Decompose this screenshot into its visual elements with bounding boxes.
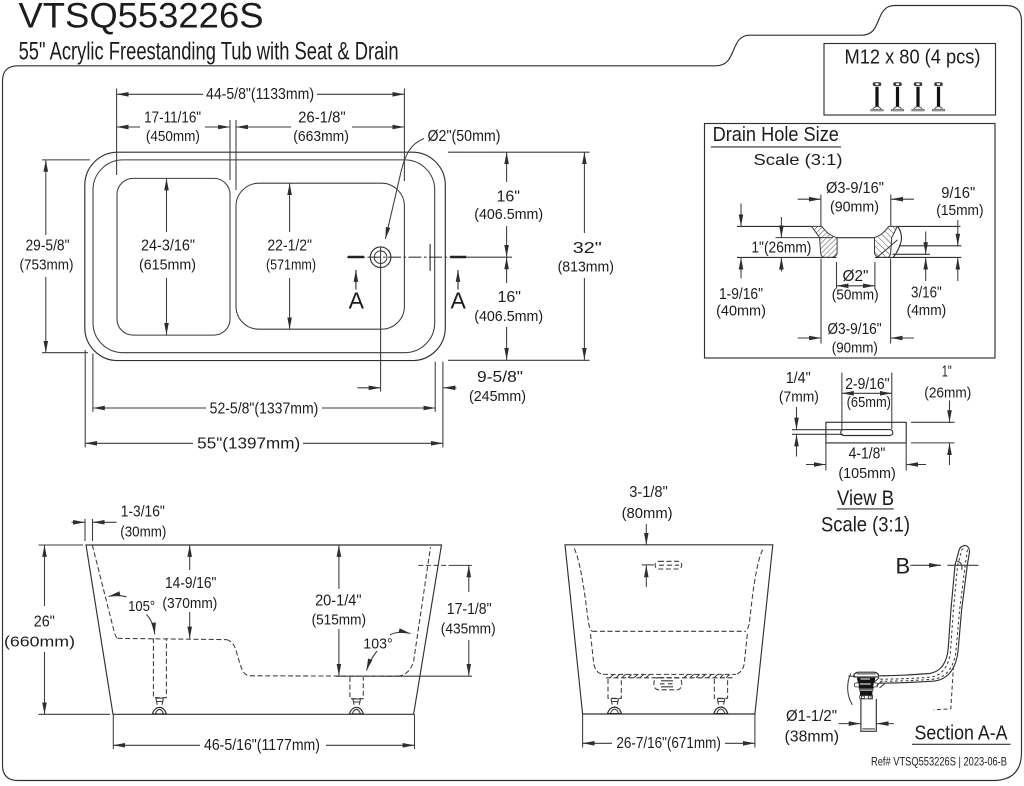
svg-text:(7mm): (7mm)	[779, 389, 819, 406]
end view inner wall right dashed	[746, 550, 763, 632]
svg-text:(450mm): (450mm)	[146, 128, 200, 145]
svg-text:105°: 105°	[128, 598, 155, 615]
svg-text:16": 16"	[497, 289, 521, 306]
svg-text:Ø3-9/16": Ø3-9/16"	[826, 180, 884, 197]
drain cable curve	[848, 674, 856, 705]
dim 46-5/16 base	[113, 714, 414, 754]
label diameter 2in drain	[385, 128, 500, 239]
drain hole plan	[370, 247, 391, 268]
svg-text:29-5/8": 29-5/8"	[26, 237, 70, 254]
svg-text:(571mm): (571mm)	[266, 257, 316, 274]
dim 4-1/8 plate length	[806, 443, 926, 482]
section wall inner line and floor top	[880, 545, 966, 675]
svg-text:9-5/8": 9-5/8"	[477, 369, 523, 386]
dim 32 overall width	[558, 152, 614, 360]
bolt 2	[891, 82, 904, 111]
svg-text:A: A	[349, 287, 365, 313]
svg-text:2-9/16": 2-9/16"	[845, 376, 889, 393]
dim bottom diameter 3-9/16	[798, 259, 914, 357]
tub plan outer rim	[85, 152, 446, 360]
svg-text:(615mm): (615mm)	[139, 257, 196, 274]
svg-text:(4mm): (4mm)	[907, 302, 947, 319]
dim top diameter 3-9/16	[798, 180, 914, 226]
tub plan seat basin	[117, 178, 230, 335]
end view floor band dashed	[603, 674, 736, 677]
dim 44-5/8 top	[117, 86, 405, 181]
deck surface lines	[737, 225, 961, 227]
bolt 4	[932, 82, 945, 111]
dim 14-9/16 seat depth	[162, 545, 217, 639]
svg-text:46-5/16"(1177mm): 46-5/16"(1177mm)	[204, 737, 320, 754]
dim tailpipe diameter	[785, 708, 894, 746]
svg-text:Section A-A: Section A-A	[915, 721, 1008, 744]
dim 3-1/8 overflow	[622, 484, 673, 587]
dim 52-5/8	[93, 354, 435, 418]
svg-text:4-1/8": 4-1/8"	[849, 446, 886, 463]
overflow tick plan	[429, 244, 431, 271]
angle 105 label	[109, 596, 156, 635]
view B title	[837, 487, 894, 510]
svg-text:3/16": 3/16"	[911, 285, 942, 302]
svg-text:(65mm): (65mm)	[847, 394, 891, 411]
drain detail box	[705, 124, 996, 359]
svg-text:(26mm): (26mm)	[924, 384, 971, 401]
drain locknut black	[854, 678, 878, 689]
svg-text:17-1/8": 17-1/8"	[447, 601, 492, 618]
svg-text:24-3/16": 24-3/16"	[141, 238, 195, 255]
dim 1/4 slot width	[779, 370, 843, 456]
drain box title	[711, 124, 841, 147]
recess seat line	[837, 237, 875, 239]
front inner wall left dashed	[92, 545, 117, 638]
svg-text:(40mm): (40mm)	[716, 303, 766, 320]
dim 20-1/4 depth	[312, 545, 366, 676]
bolt 1	[871, 82, 884, 111]
tub plan inner rim	[93, 160, 435, 353]
view B plate	[826, 422, 906, 443]
svg-text:A: A	[451, 287, 467, 313]
svg-text:9/16": 9/16"	[941, 185, 975, 202]
svg-text:(245mm): (245mm)	[469, 388, 526, 405]
svg-text:32": 32"	[573, 240, 602, 257]
section skirt dashed	[934, 666, 954, 710]
dim 26 height	[4, 545, 110, 714]
svg-text:17-11/16": 17-11/16"	[144, 109, 201, 126]
svg-text:1-3/16": 1-3/16"	[121, 504, 165, 521]
dim 17-11/16	[117, 109, 236, 190]
dim 26-1/8	[236, 109, 404, 144]
drain centerline	[347, 247, 512, 269]
front right foot	[349, 699, 363, 714]
svg-text:Scale (3:1): Scale (3:1)	[821, 513, 910, 536]
section marker A left	[348, 257, 365, 313]
dim 29-5/8 left	[20, 160, 91, 353]
deck underside lines	[737, 256, 961, 258]
front seat step dashed	[227, 640, 250, 676]
title model number	[19, 0, 264, 35]
svg-text:16": 16"	[496, 189, 520, 206]
svg-text:26-7/16"(671mm): 26-7/16"(671mm)	[616, 735, 721, 752]
end view drain dashed	[654, 678, 682, 690]
svg-text:1-9/16": 1-9/16"	[719, 286, 763, 303]
extension lines right side plan	[448, 152, 590, 360]
svg-text:Ø1-1/2": Ø1-1/2"	[786, 708, 837, 725]
dim 55 overall	[85, 350, 443, 452]
section title	[912, 721, 1011, 744]
section slot notch	[957, 561, 962, 570]
section marker A right	[450, 257, 466, 313]
drain box scale	[754, 152, 843, 169]
title description	[19, 38, 399, 66]
svg-text:(90mm): (90mm)	[832, 340, 878, 357]
svg-text:(15mm): (15mm)	[936, 202, 983, 219]
svg-text:(80mm): (80mm)	[622, 505, 673, 522]
dim 16 lower	[474, 257, 543, 359]
front elevation outline	[86, 545, 442, 714]
end view inner wall left dashed	[574, 549, 592, 632]
dim 24-3/16 seat	[139, 179, 196, 335]
svg-text:55" Acrylic Freestanding Tub w: 55" Acrylic Freestanding Tub with Seat &…	[19, 38, 399, 66]
svg-text:Ø3-9/16": Ø3-9/16"	[827, 321, 881, 338]
end view lower wall dashed	[591, 634, 748, 675]
drain tailpipe	[861, 699, 876, 731]
front left leg dashed	[153, 638, 166, 697]
hardware label M12	[845, 46, 981, 68]
svg-text:(370mm): (370mm)	[162, 595, 217, 612]
svg-text:B: B	[896, 553, 911, 578]
svg-text:(50mm): (50mm)	[832, 287, 879, 304]
end view waterline dashed	[592, 630, 745, 632]
right ledge lines	[893, 246, 962, 255]
svg-text:(515mm): (515mm)	[312, 612, 366, 629]
floor extension line	[336, 675, 472, 677]
drain flange lip	[854, 672, 879, 677]
drain nut circles	[860, 696, 873, 699]
svg-text:26-1/8": 26-1/8"	[298, 109, 346, 126]
svg-text:14-9/16": 14-9/16"	[165, 575, 216, 592]
end view right leg dashed	[714, 679, 727, 698]
end view left leg dashed	[608, 679, 621, 698]
svg-text:20-1/4": 20-1/4"	[315, 593, 361, 610]
section reinforcement dashes	[880, 549, 967, 682]
dim 17-1/8 right	[418, 565, 495, 675]
svg-text:(105mm): (105mm)	[838, 465, 895, 482]
svg-text:52-5/8"(1337mm): 52-5/8"(1337mm)	[210, 400, 319, 417]
end view outline	[565, 545, 773, 714]
dim 1in plate height	[911, 363, 971, 465]
svg-text:(663mm): (663mm)	[293, 128, 349, 145]
front floor dashed	[250, 675, 398, 677]
dim 1-3/16 rim	[72, 504, 167, 542]
svg-text:(753mm): (753mm)	[20, 257, 74, 274]
svg-text:1": 1"	[942, 363, 952, 380]
svg-text:(30mm): (30mm)	[120, 524, 166, 541]
floor hatch near drain	[875, 678, 885, 688]
dim 22-1/2 well	[266, 183, 316, 329]
dim 2-9/16 slot length	[842, 373, 892, 430]
dim 1in thickness	[751, 217, 833, 272]
ref number	[871, 757, 1007, 769]
view B scale	[821, 513, 910, 536]
drain recess left wall hatched	[812, 226, 838, 257]
svg-text:26": 26"	[34, 614, 55, 631]
front right leg dashed	[350, 677, 363, 699]
dim 9/16 recess	[936, 185, 983, 281]
B marker leader	[896, 553, 979, 578]
svg-text:(38mm): (38mm)	[785, 728, 840, 745]
svg-text:VTSQ553226S: VTSQ553226S	[19, 0, 264, 35]
dim 9-5/8 drain offset	[358, 268, 527, 405]
end view left foot	[607, 699, 621, 714]
tub plan bathing well	[236, 183, 404, 329]
view B slot	[841, 430, 893, 436]
svg-text:3-1/8": 3-1/8"	[629, 484, 668, 501]
overflow slot dashed	[655, 561, 682, 569]
svg-text:View B: View B	[837, 487, 894, 510]
svg-text:1"(26mm): 1"(26mm)	[751, 239, 811, 256]
svg-text:Ø2": Ø2"	[843, 268, 869, 285]
angle 103 label	[363, 632, 410, 670]
dim 3/16 lip	[907, 232, 947, 320]
dim 1-9/16 total	[716, 204, 766, 320]
svg-text:(813mm): (813mm)	[558, 259, 614, 276]
svg-text:(406.5mm): (406.5mm)	[474, 308, 543, 325]
svg-text:Scale (3:1): Scale (3:1)	[754, 152, 843, 169]
dim 26-7/16	[583, 714, 755, 752]
end view right foot	[714, 699, 728, 714]
svg-text:1/4": 1/4"	[786, 370, 811, 387]
front seat dashed	[118, 638, 227, 639]
front inner wall right dashed	[398, 547, 431, 676]
svg-text:(406.5mm): (406.5mm)	[474, 206, 543, 223]
svg-text:103°: 103°	[363, 636, 392, 653]
front left foot	[152, 698, 166, 714]
hardware box	[824, 44, 996, 116]
section wall outer line and floor bottom	[880, 545, 970, 683]
svg-text:(90mm): (90mm)	[830, 199, 879, 216]
drain recess right wall hatched	[875, 226, 902, 257]
drain washer band	[860, 689, 873, 695]
svg-text:55"(1397mm): 55"(1397mm)	[197, 435, 300, 452]
svg-text:(660mm): (660mm)	[4, 634, 75, 651]
svg-text:44-5/8"(1133mm): 44-5/8"(1133mm)	[206, 86, 314, 103]
dim diameter 2 hole	[832, 262, 879, 304]
svg-text:(435mm): (435mm)	[441, 621, 496, 638]
svg-text:M12 x 80 (4 pcs): M12 x 80 (4 pcs)	[845, 46, 981, 68]
svg-text:Ref# VTSQ553226S | 2023-06-B: Ref# VTSQ553226S | 2023-06-B	[871, 757, 1007, 769]
svg-text:Drain Hole Size: Drain Hole Size	[713, 124, 839, 146]
svg-text:Ø2"(50mm): Ø2"(50mm)	[428, 128, 501, 145]
bolt 3	[912, 82, 925, 111]
dim 16 upper	[474, 152, 543, 257]
svg-text:22-1/2": 22-1/2"	[267, 238, 312, 255]
